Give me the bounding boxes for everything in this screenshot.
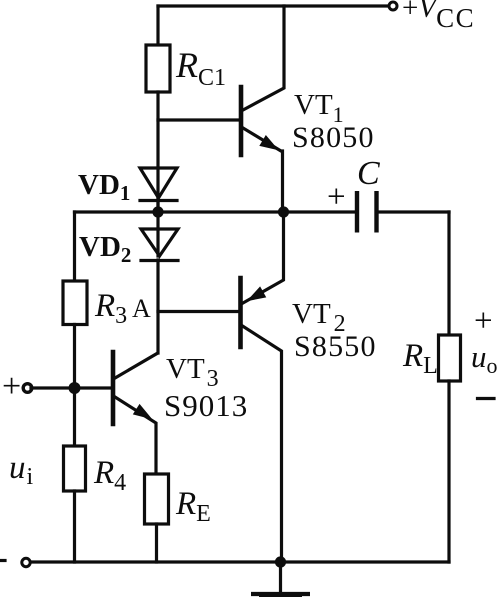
transistor Q VT2 base bar xyxy=(238,278,243,347)
diode VD2 xyxy=(141,229,178,256)
resistor R4 xyxy=(64,446,86,491)
wire VT3 collector xyxy=(115,354,157,379)
wire right rail upper xyxy=(447,212,450,335)
wire left rail lower xyxy=(73,491,76,562)
label minus output xyxy=(478,397,495,400)
transistor Q VT1 base bar xyxy=(239,87,244,155)
svg-text:S8550: S8550 xyxy=(294,330,377,363)
wire VT1 base xyxy=(158,118,239,121)
wire VT2 collector xyxy=(243,326,282,562)
capacitor C right plate xyxy=(374,191,378,233)
svg-text:S8050: S8050 xyxy=(292,121,375,154)
wire RE bottom lead xyxy=(155,524,158,562)
ground stem xyxy=(279,562,282,593)
wire VT3 emitter xyxy=(115,397,156,474)
diode VD1 xyxy=(140,168,177,198)
svg-text:S9013: S9013 xyxy=(164,388,248,423)
resistor R3 xyxy=(63,281,87,325)
transistor Q VT3 base bar xyxy=(111,352,116,424)
node dot input junction xyxy=(69,382,81,394)
wire top rail xyxy=(158,4,389,7)
node dot output xyxy=(278,206,289,217)
arrowhead VT1 emitter xyxy=(260,136,277,150)
svg-text:C: C xyxy=(357,155,380,192)
wire right rail lower xyxy=(447,381,450,562)
node dot diodes xyxy=(152,206,163,217)
svg-text:+: + xyxy=(474,303,493,339)
diode VD1 cathode bar xyxy=(140,199,177,202)
capacitor C left plate xyxy=(355,191,359,233)
diode VD2 cathode bar xyxy=(141,259,178,262)
arrowhead VT3 emitter xyxy=(134,405,151,419)
node dot ground junction xyxy=(275,556,286,567)
wire left rail middle xyxy=(73,325,76,447)
wire VD1 to node xyxy=(156,198,159,212)
ground bar 2 xyxy=(259,596,302,597)
terminal input plus xyxy=(23,384,32,393)
svg-text:A: A xyxy=(132,294,151,323)
wire VT1 emitter xyxy=(243,128,283,212)
wire VT2 emitter xyxy=(243,212,284,303)
wire RC1 bottom lead xyxy=(156,92,159,212)
terminal input minus xyxy=(22,558,30,566)
svg-text:+: + xyxy=(2,368,21,405)
resistor RC1 xyxy=(146,45,170,92)
wire capacitor to right rail xyxy=(378,210,449,213)
wire node A to VT2 base xyxy=(158,310,239,313)
wire input to VT3 base xyxy=(31,386,111,389)
wire RC1 top lead xyxy=(156,6,159,45)
resistor RE xyxy=(145,474,169,524)
ground bar xyxy=(251,592,310,596)
svg-text:+: + xyxy=(327,179,346,215)
wire VD2 top lead xyxy=(156,212,159,256)
wire VT1 collector xyxy=(243,6,284,110)
wire mid horizontal rail xyxy=(75,210,356,213)
terminal +Vcc xyxy=(389,2,397,10)
wire bottom rail xyxy=(30,560,449,563)
wire left rail upper xyxy=(73,212,76,281)
arrowhead VT2 emitter xyxy=(248,287,266,300)
resistor RL xyxy=(439,335,461,381)
label minus input xyxy=(0,559,5,562)
wire VD2 down through node A to VT3 collector xyxy=(156,260,159,353)
